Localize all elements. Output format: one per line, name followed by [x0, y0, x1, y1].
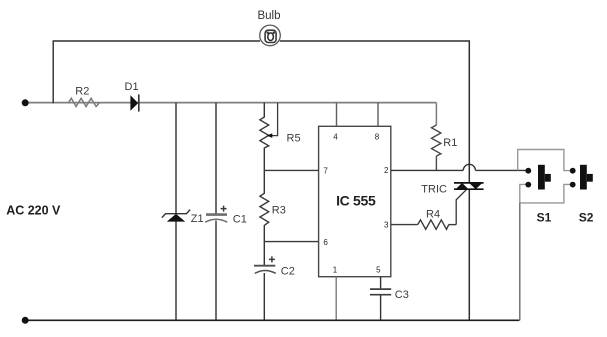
label R3	[272, 205, 286, 217]
svg-text:R2: R2	[75, 85, 89, 97]
wire bottom rail	[25, 319, 520, 321]
capacitor C3	[370, 289, 391, 320]
wire top bulb rail	[53, 40, 470, 42]
node left AC terminal (top)	[22, 99, 29, 106]
wire S2 bottom link	[520, 184, 573, 203]
capacitor C2	[254, 256, 276, 273]
capacitor C1	[205, 206, 227, 223]
wire triac gate	[456, 190, 466, 225]
label R5	[287, 132, 301, 144]
wire pin6 net	[264, 241, 318, 243]
pin 5 label	[376, 265, 381, 274]
label TRIC	[421, 184, 447, 196]
wire pin2 net	[391, 164, 528, 170]
triac TRIC	[454, 183, 484, 189]
label C2	[281, 265, 295, 277]
svg-text:R3: R3	[272, 205, 286, 217]
svg-text:IC 555: IC 555	[336, 193, 376, 209]
wire S1 top link	[518, 150, 573, 171]
diode D1	[130, 94, 138, 111]
pin 2 label	[384, 166, 389, 175]
label S2	[579, 211, 594, 225]
svg-text:1: 1	[333, 265, 338, 274]
pin 6 label	[323, 238, 328, 247]
wire S1 bottom to rail	[520, 184, 529, 320]
wire triac vertical	[468, 41, 470, 320]
label D1	[125, 81, 139, 93]
svg-text:8: 8	[375, 133, 380, 142]
svg-text:C3: C3	[395, 289, 409, 301]
lamp Bulb	[260, 25, 281, 46]
label R2	[75, 85, 89, 97]
pin 4 label	[333, 133, 338, 142]
label AC 220 V	[6, 203, 61, 217]
op-amp IC U1 box	[319, 126, 391, 276]
svg-text:R1: R1	[443, 137, 457, 149]
pin 8 label	[375, 133, 380, 142]
wire pin8 stub	[377, 103, 379, 127]
wire pin7 net	[264, 169, 318, 171]
label Bulb	[257, 10, 280, 22]
zener diode Z1	[162, 210, 190, 222]
label R1	[443, 137, 457, 149]
wire pin5 stub	[380, 277, 382, 289]
pin 3 label	[384, 220, 389, 229]
svg-text:2: 2	[384, 166, 389, 175]
resistor R1	[432, 103, 441, 171]
svg-text:Bulb: Bulb	[257, 10, 280, 22]
pin 1 label	[333, 265, 338, 274]
wire pin1 stub	[335, 277, 337, 321]
svg-text:6: 6	[323, 238, 328, 247]
label IC 555	[336, 193, 376, 209]
wire C1 branch	[215, 103, 217, 321]
potentiometer R5	[260, 117, 269, 148]
svg-text:3: 3	[384, 220, 389, 229]
svg-text:S1: S1	[537, 211, 552, 225]
svg-text:R4: R4	[426, 209, 440, 221]
label S1	[537, 211, 552, 225]
svg-text:TRIC: TRIC	[421, 184, 447, 196]
label R4	[426, 209, 440, 221]
resistor R3	[260, 193, 269, 225]
resistor R2	[69, 98, 100, 106]
switch S1	[525, 165, 550, 190]
wire R5 R3 C2 branch	[263, 103, 265, 321]
pin 7 label	[323, 166, 328, 175]
node left AC terminal (bottom)	[22, 317, 29, 324]
switch S2	[570, 165, 593, 190]
wiper of R5	[267, 103, 278, 138]
label Z1	[191, 213, 204, 225]
wire pin4 stub	[336, 103, 338, 127]
svg-text:C1: C1	[233, 214, 247, 226]
wire zener branch	[175, 103, 177, 321]
svg-text:4: 4	[333, 133, 338, 142]
label C1	[233, 214, 247, 226]
svg-text:AC 220 V: AC 220 V	[6, 203, 61, 217]
label C3	[395, 289, 409, 301]
resistor R4	[418, 220, 449, 229]
svg-text:C2: C2	[281, 265, 295, 277]
wire pin3 net	[391, 224, 456, 226]
svg-text:R5: R5	[287, 132, 301, 144]
svg-text:Z1: Z1	[191, 213, 204, 225]
svg-text:5: 5	[376, 265, 381, 274]
svg-text:7: 7	[323, 166, 328, 175]
svg-text:S2: S2	[579, 211, 594, 225]
wire top rail	[25, 102, 436, 104]
svg-text:D1: D1	[125, 81, 139, 93]
wire bulb branch vertical	[52, 41, 54, 104]
